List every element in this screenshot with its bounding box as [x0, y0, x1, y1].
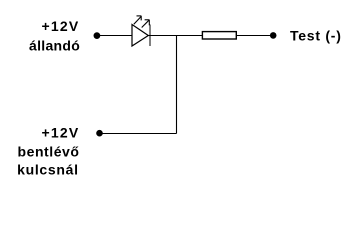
- wire: [97, 35, 132, 37]
- diode D1 LED arrow 1: [134, 16, 142, 24]
- node: Test (-) terminal: [270, 32, 277, 39]
- svg-text:Test (-): Test (-): [290, 28, 342, 44]
- svg-text:kulcsnál: kulcsnál: [17, 161, 79, 177]
- diode D1 cathode bar: [149, 24, 151, 46]
- node: +12V kulcsnal terminal: [96, 130, 103, 137]
- svg-text:+12V: +12V: [42, 124, 80, 140]
- diode D1 LED arrow 2: [142, 20, 150, 28]
- wire: [99, 133, 177, 135]
- wire: [148, 35, 202, 37]
- svg-text:+12V: +12V: [42, 18, 80, 34]
- wire: [237, 35, 273, 37]
- wire: [176, 36, 178, 134]
- node: +12V allando terminal: [94, 32, 101, 39]
- svg-text:állandó: állandó: [29, 38, 80, 54]
- svg-text:bentlévő: bentlévő: [18, 143, 80, 159]
- diode D1 LED triangle: [132, 25, 148, 47]
- resistor R1: [202, 32, 236, 39]
